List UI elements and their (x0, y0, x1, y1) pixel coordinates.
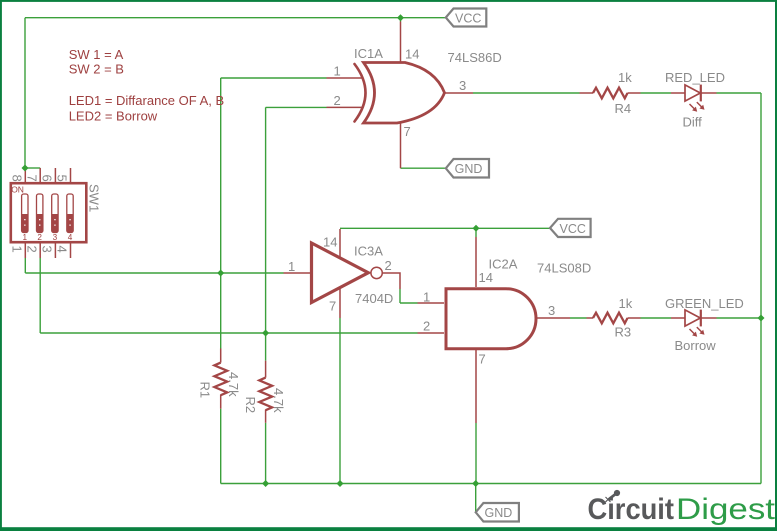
wire VCC top net vertical to DIP (24, 18, 26, 168)
svg-text:2: 2 (24, 246, 39, 253)
svg-text:LED1 = Diffarance OF A, B: LED1 = Diffarance OF A, B (69, 93, 224, 108)
lead RED_LED right (701, 92, 717, 94)
lead R4 left (580, 92, 594, 94)
wire RED_LED to right rail (717, 92, 762, 94)
LED RED_LED symbol (685, 85, 705, 112)
wire net B horizontal (40, 332, 417, 334)
LED GREEN_LED symbol (685, 310, 705, 337)
svg-text:3: 3 (40, 246, 55, 253)
svg-text:4: 4 (68, 233, 73, 242)
svg-text:7: 7 (479, 352, 486, 367)
pin stub XOR pin7 (400, 123, 402, 168)
svg-text:2: 2 (334, 93, 341, 108)
pin stub XOR pin1 (327, 77, 363, 79)
svg-text:LED2 = Borrow: LED2 = Borrow (69, 109, 158, 124)
junction ground rail at GND flag (472, 480, 479, 487)
svg-text:2: 2 (423, 319, 430, 334)
wire net A down to R1 (220, 273, 222, 349)
junction at DIP pin8 (22, 165, 29, 172)
wire ground rail horizontal (221, 483, 761, 485)
svg-text:3: 3 (53, 233, 58, 242)
wire R2 bottom to ground rail (265, 423, 267, 484)
wire net A to XOR pin1 horizontal (221, 77, 327, 79)
svg-text:SW1: SW1 (87, 184, 102, 212)
svg-text:Digest: Digest (676, 493, 775, 526)
lead R1 bottom (220, 395, 222, 409)
svg-text:SW 2 = B: SW 2 = B (69, 62, 124, 77)
junction at VCC top (397, 14, 404, 21)
svg-text:RED_LED: RED_LED (665, 70, 725, 85)
wire R4 to RED_LED (641, 92, 672, 94)
lead R2 top (265, 361, 267, 378)
svg-text:R4: R4 (615, 101, 632, 116)
wire VCC top net horizontal (25, 17, 446, 19)
lead RED_LED left (671, 92, 685, 94)
SW1 top pin stubs 8 7 6 5 (25, 168, 70, 182)
lead GREEN_LED left (671, 317, 685, 319)
svg-text:R2: R2 (243, 397, 258, 414)
note text SW1=A block (69, 47, 224, 124)
wire R1 bottom to ground rail (220, 409, 222, 484)
wire NOT pin7 down to ground rail (339, 318, 341, 484)
pin stub AND pin1 (418, 302, 445, 304)
NOT gate IC3A bubble (371, 267, 382, 278)
svg-text:GREEN_LED: GREEN_LED (665, 296, 744, 311)
svg-text:Circuit: Circuit (588, 493, 675, 526)
SW1 slider 2 (37, 194, 43, 233)
svg-text:1: 1 (423, 290, 430, 305)
svg-text:SW 1 = A: SW 1 = A (69, 47, 124, 62)
svg-text:7: 7 (329, 299, 336, 314)
lead R3 left (587, 317, 594, 319)
svg-text:8: 8 (9, 175, 24, 182)
SW1 inner numbers 1 2 3 4 (23, 233, 73, 242)
GND supply flag at XOR (446, 159, 489, 178)
VCC supply flag at AND gate (550, 219, 591, 237)
svg-text:1k: 1k (619, 296, 633, 311)
wire R3 to GREEN_LED (641, 317, 672, 319)
junction at VCC2 AND pin14 (473, 225, 480, 232)
pin stub AND pin2 (418, 332, 445, 334)
svg-text:4.7k: 4.7k (271, 388, 286, 413)
DIP switch SW1 (9, 168, 101, 258)
XOR gate IC1A input arc (355, 64, 366, 122)
svg-text:1: 1 (9, 246, 24, 253)
junction at right rail GREEN_LED (758, 315, 765, 322)
wire XOR pin7 to GND flag (401, 167, 446, 169)
SW1 bottom pin stubs 1 2 3 4 (25, 244, 70, 259)
svg-text:2: 2 (37, 233, 42, 242)
SW1 slider 1 (22, 194, 28, 233)
resistor R1 zigzag (214, 363, 227, 396)
SW1 slider 4 (67, 194, 73, 233)
svg-text:7: 7 (24, 175, 39, 182)
wire NOT output vertical green part (399, 289, 401, 303)
resistor R2 zigzag (259, 378, 272, 411)
svg-text:4: 4 (55, 246, 70, 253)
pin stub AND pin14 (475, 237, 477, 287)
junction net A at R1 top (217, 270, 224, 277)
NOT gate U3 IC3A triangle (312, 243, 369, 303)
wire net A horizontal (25, 272, 283, 274)
lead R2 bottom (265, 410, 267, 423)
pin stub NOT output pin2 (383, 273, 400, 289)
pin stub AND pin7 (475, 350, 477, 423)
XOR gate U1 IC1A body (364, 63, 445, 124)
junction ground rail at NOT pin7 (337, 480, 344, 487)
svg-text:2: 2 (385, 258, 392, 273)
junction net B at R2 top (262, 330, 269, 337)
pin stub NOT pin14 (339, 229, 341, 258)
pin stub XOR pin3 output (445, 92, 474, 94)
SW1 bottom pin numbers 1 2 3 4 (9, 246, 69, 253)
pin stub AND pin3 output (536, 317, 570, 319)
svg-text:VCC: VCC (560, 222, 586, 236)
pin stub XOR pin2 (327, 106, 363, 108)
GND supply flag at bottom (476, 503, 519, 522)
svg-text:R3: R3 (615, 325, 632, 340)
wire net B from DIP pin2 down (39, 258, 41, 333)
svg-text:R1: R1 (198, 382, 213, 399)
lead R3 right (628, 317, 641, 319)
resistor R4 zigzag (593, 88, 628, 99)
wire net B to XOR pin2 horizontal (266, 106, 327, 108)
wire AND output to R3 (570, 317, 587, 319)
wire net B vertical to XOR pin2 (265, 107, 267, 333)
svg-text:3: 3 (459, 78, 466, 93)
lead R1 top (220, 349, 222, 363)
junction ground rail at R2 (262, 480, 269, 487)
svg-text:VCC: VCC (455, 12, 481, 26)
SW1 slider 3 (52, 194, 58, 233)
resistor R3 zigzag (593, 313, 628, 324)
wire GREEN_LED to right rail (717, 317, 762, 319)
svg-text:14: 14 (323, 235, 337, 250)
svg-text:GND: GND (455, 162, 483, 176)
wire ground rail to GND flag (475, 484, 477, 513)
lead R4 right (628, 92, 641, 94)
svg-text:1: 1 (334, 64, 341, 79)
wire XOR pin14 to VCC (400, 18, 402, 22)
CircuitDigest logo (588, 490, 776, 526)
svg-text:1: 1 (23, 233, 28, 242)
wire net A vertical to XOR pin1 (220, 78, 222, 273)
AND gate U2 IC2A body (446, 289, 536, 349)
svg-text:74LS08D: 74LS08D (537, 261, 591, 276)
wire DIP pin7 branch (25, 167, 40, 169)
wire XOR output to R4 (473, 92, 580, 94)
wire net B down to R2 (265, 333, 267, 361)
pin stub NOT pin1 (284, 272, 311, 274)
pin stub XOR pin14 (400, 22, 402, 63)
svg-text:IC1A: IC1A (354, 46, 383, 61)
wire net A from DIP pin1 down (24, 258, 26, 273)
svg-text:5: 5 (55, 175, 70, 182)
pin stub NOT pin7 (339, 288, 341, 318)
svg-text:ON: ON (11, 184, 24, 194)
svg-text:4.7k: 4.7k (226, 372, 241, 397)
svg-text:7: 7 (404, 124, 411, 139)
lead GREEN_LED right (701, 317, 717, 319)
svg-text:Borrow: Borrow (675, 338, 717, 353)
svg-text:14: 14 (479, 270, 493, 285)
wire VCC2 horizontal (340, 227, 550, 229)
svg-text:1: 1 (288, 259, 295, 274)
svg-text:74LS86D: 74LS86D (448, 50, 502, 65)
svg-text:6: 6 (40, 175, 55, 182)
VCC supply flag top (446, 9, 487, 27)
SW1 top pin numbers 8 7 6 5 (9, 175, 69, 182)
wire AND pin14 stub top (475, 228, 477, 237)
svg-text:3: 3 (548, 303, 555, 318)
wire AND pin7 down to ground rail (475, 423, 477, 484)
svg-text:IC3A: IC3A (354, 244, 383, 259)
svg-text:GND: GND (485, 506, 513, 520)
svg-text:1k: 1k (618, 70, 632, 85)
wire right rail vertical (760, 93, 762, 484)
svg-text:14: 14 (405, 47, 419, 62)
svg-text:Diff: Diff (683, 115, 703, 130)
svg-text:7404D: 7404D (355, 291, 393, 306)
wire NOT output to AND pin1 (400, 302, 418, 304)
